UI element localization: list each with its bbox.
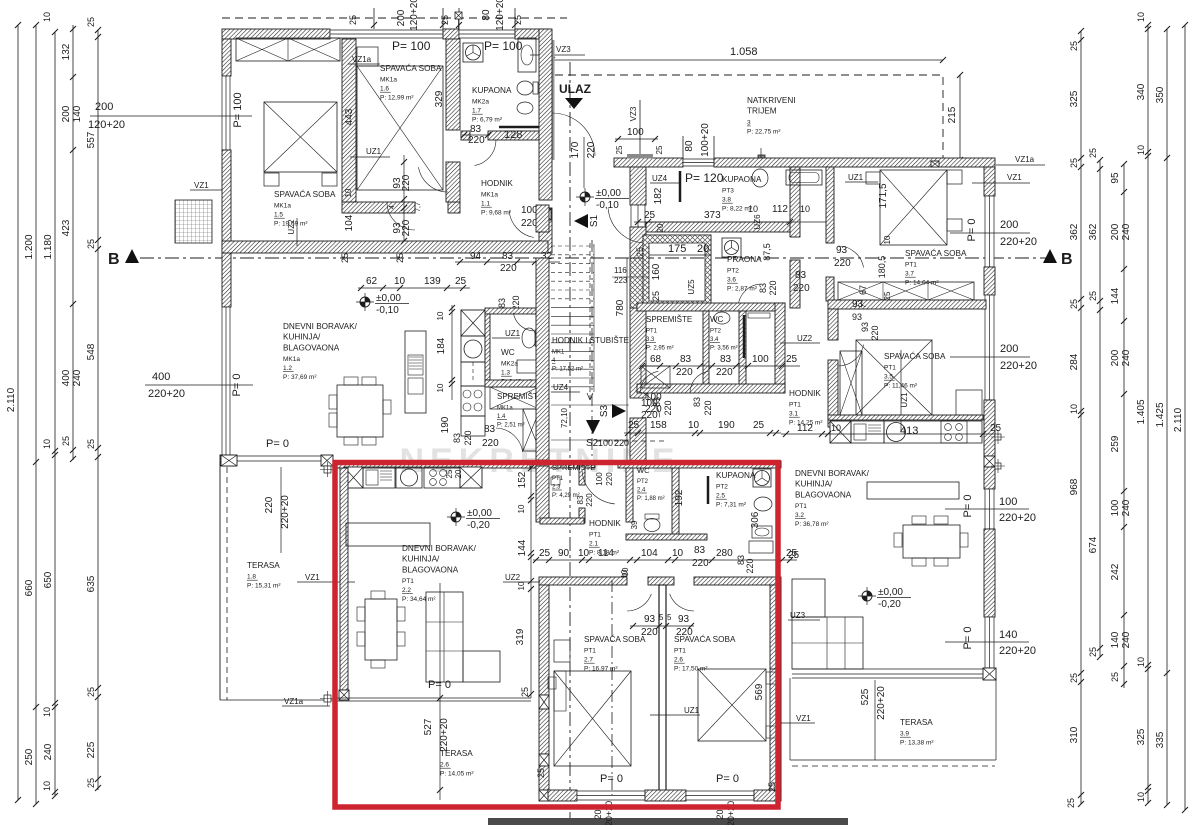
wall kupaona PT3 / bedroom 3.7 xyxy=(790,167,800,237)
svg-text:674: 674 xyxy=(1088,536,1099,553)
svg-text:83: 83 xyxy=(452,433,462,443)
svg-text:-0,20: -0,20 xyxy=(467,520,490,531)
svg-text:KUPAONA: KUPAONA xyxy=(722,175,762,184)
window 100+20 top wall right bldg xyxy=(683,159,714,166)
svg-text:25: 25 xyxy=(990,423,1002,434)
svg-text:PT1: PT1 xyxy=(884,365,896,372)
svg-text:KUHINJA/: KUHINJA/ xyxy=(283,333,321,342)
dim leader top window 200/120+20 xyxy=(373,8,375,29)
svg-text:144: 144 xyxy=(1110,287,1121,304)
door arc into hodnik 2.1 xyxy=(582,471,615,504)
svg-text:220: 220 xyxy=(676,367,693,378)
wall bedroom 3.5 / hodnik xyxy=(828,360,838,427)
svg-text:VZ1: VZ1 xyxy=(305,573,320,582)
svg-text:ULAZ: ULAZ xyxy=(559,82,591,96)
svg-text:KUHINJA/: KUHINJA/ xyxy=(795,480,833,489)
svg-text:3.4: 3.4 xyxy=(710,337,719,343)
svg-text:184: 184 xyxy=(436,337,447,354)
pier xyxy=(539,695,549,709)
svg-text:423: 423 xyxy=(61,219,72,236)
pier 2 xyxy=(539,754,549,766)
east wall mid xyxy=(984,400,995,456)
svg-text:DNEVNI BORAVAK/: DNEVNI BORAVAK/ xyxy=(402,544,477,553)
entry door arc left apartment xyxy=(552,113,595,156)
sink kupaona 2.5 xyxy=(752,526,772,538)
nightstand bed 2.7 xyxy=(548,677,556,689)
east wall piece xyxy=(984,467,995,489)
svg-text:93: 93 xyxy=(852,299,864,310)
svg-text:TERASA: TERASA xyxy=(440,749,473,758)
svg-text:S3: S3 xyxy=(599,404,610,417)
south wall mid piece xyxy=(645,790,686,801)
svg-text:83: 83 xyxy=(694,545,706,556)
north wall at spremiste 2.3 xyxy=(530,461,595,468)
west exterior wall below section xyxy=(222,253,231,307)
svg-text:25: 25 xyxy=(786,354,798,365)
wall xyxy=(626,468,633,522)
east wall mid apartment lower xyxy=(770,669,781,792)
dim chain right overall 2.110 xyxy=(1184,25,1186,810)
svg-text:10: 10 xyxy=(344,188,353,197)
wall spremiste south xyxy=(540,518,584,524)
svg-text:PT2: PT2 xyxy=(710,329,722,335)
svg-text:400: 400 xyxy=(61,369,72,386)
svg-text:SPAVAĆA SOBA: SPAVAĆA SOBA xyxy=(905,248,967,258)
svg-text:P= 100: P= 100 xyxy=(484,39,523,53)
door arc bedroom 3.5 xyxy=(838,345,864,367)
terasa pier east xyxy=(321,455,333,466)
svg-text:DNEVNI BORAVAK/: DNEVNI BORAVAK/ xyxy=(795,469,870,478)
elevation marker bottom-right apt xyxy=(858,587,876,605)
svg-text:780: 780 xyxy=(615,299,626,316)
svg-text:2.5: 2.5 xyxy=(716,493,725,500)
door arc praona xyxy=(738,284,760,306)
svg-text:2.6: 2.6 xyxy=(674,657,683,664)
west wall shaft part xyxy=(630,258,646,308)
svg-text:P= 0: P= 0 xyxy=(428,679,451,691)
top wall west part xyxy=(614,158,683,167)
door arc wc xyxy=(513,313,533,331)
west wall lower xyxy=(630,308,646,398)
svg-text:2.6: 2.6 xyxy=(440,762,449,769)
svg-text:WC: WC xyxy=(501,348,515,357)
sink vanity kupaona xyxy=(518,38,536,72)
svg-text:1.4: 1.4 xyxy=(497,414,506,420)
svg-text:P: 17,52 m²: P: 17,52 m² xyxy=(552,367,583,373)
svg-text:25: 25 xyxy=(1066,798,1076,808)
top wall box xyxy=(931,161,939,167)
wall south of spremiste/wc block xyxy=(637,384,785,393)
nightstand bed 2.6 xyxy=(766,672,777,684)
svg-text:240: 240 xyxy=(1121,223,1132,240)
svg-text:128: 128 xyxy=(504,129,522,141)
svg-text:1.6: 1.6 xyxy=(380,86,389,93)
west wall end pier at terasa xyxy=(220,455,234,466)
svg-text:182: 182 xyxy=(653,187,664,204)
svg-text:P: 16,97 m²: P: 16,97 m² xyxy=(584,666,618,673)
west wall stair/apt upper xyxy=(630,167,646,205)
sofa L mid apartment xyxy=(426,592,463,682)
svg-text:100: 100 xyxy=(627,127,644,138)
svg-text:HODNIK: HODNIK xyxy=(589,519,621,528)
svg-text:P: 2,95 m²: P: 2,95 m² xyxy=(646,346,674,352)
svg-text:P: 36,78 m²: P: 36,78 m² xyxy=(795,521,829,528)
S1 marker xyxy=(574,214,588,228)
S3 marker xyxy=(612,404,626,418)
svg-text:VZ1a: VZ1a xyxy=(1015,155,1035,164)
svg-text:95: 95 xyxy=(1110,172,1121,184)
svg-text:10: 10 xyxy=(42,439,52,449)
gray building stub bottom xyxy=(488,818,848,825)
axis dash-dot S3 through bedrooms xyxy=(611,580,613,795)
svg-text:220: 220 xyxy=(482,438,499,449)
dim line 780 xyxy=(626,258,628,460)
svg-text:215: 215 xyxy=(947,106,958,123)
svg-text:240: 240 xyxy=(1121,349,1132,366)
svg-text:25: 25 xyxy=(445,469,454,478)
svg-text:P= 120: P= 120 xyxy=(685,171,724,185)
svg-text:PT3: PT3 xyxy=(722,188,734,195)
svg-text:259: 259 xyxy=(1110,435,1121,452)
kupaona 2.5 bold jamb xyxy=(707,476,710,504)
dim 215 trijem xyxy=(959,75,961,160)
svg-text:280: 280 xyxy=(716,548,733,559)
svg-text:10: 10 xyxy=(394,276,406,287)
svg-text:10: 10 xyxy=(436,311,445,320)
svg-text:P: 17,50 m²: P: 17,50 m² xyxy=(674,666,708,673)
svg-text:100: 100 xyxy=(595,472,604,486)
svg-text:144: 144 xyxy=(517,539,528,556)
svg-text:SPAVAĆA SOBA: SPAVAĆA SOBA xyxy=(674,634,736,644)
svg-text:220: 220 xyxy=(468,135,485,146)
svg-text:P= 0: P= 0 xyxy=(600,773,623,785)
svg-text:220+20: 220+20 xyxy=(999,645,1036,657)
svg-text:10: 10 xyxy=(1136,12,1146,22)
wall bedroom 3.7 / hodnik upper xyxy=(826,167,834,243)
dim chain right 340/1.405/325 xyxy=(1147,25,1149,803)
svg-text:P= 100: P= 100 xyxy=(232,92,244,127)
bidet kupaona xyxy=(517,102,533,114)
svg-text:220: 220 xyxy=(401,219,412,236)
svg-text:160: 160 xyxy=(651,263,662,280)
svg-text:83: 83 xyxy=(720,354,732,365)
svg-text:83: 83 xyxy=(502,251,514,262)
south glass wall bottom-right xyxy=(792,669,983,678)
svg-text:HODNIK I STUBIŠTE: HODNIK I STUBIŠTE xyxy=(552,336,629,345)
east wall below entry door xyxy=(539,208,552,253)
svg-text:25: 25 xyxy=(786,548,798,559)
svg-text:25: 25 xyxy=(1088,148,1098,158)
svg-text:MK1a: MK1a xyxy=(481,192,498,199)
svg-text:335: 335 xyxy=(1155,731,1166,748)
svg-text:KUPAONA: KUPAONA xyxy=(472,86,512,95)
svg-text:240: 240 xyxy=(72,369,83,386)
svg-text:94: 94 xyxy=(470,251,482,262)
svg-text:25: 25 xyxy=(1088,647,1098,657)
svg-text:200: 200 xyxy=(1110,223,1121,240)
svg-text:25: 25 xyxy=(1110,672,1120,682)
dim chain left 132/200/423/400 xyxy=(72,25,74,460)
svg-text:PRAONA: PRAONA xyxy=(727,255,762,264)
svg-text:2.1: 2.1 xyxy=(589,541,598,548)
svg-text:220+20: 220+20 xyxy=(280,495,291,529)
svg-text:225: 225 xyxy=(86,741,97,758)
svg-text:250: 250 xyxy=(24,748,35,765)
svg-text:1.3: 1.3 xyxy=(501,370,510,377)
svg-text:325: 325 xyxy=(1136,728,1147,745)
dim 525/220+20 terasa 3.9 xyxy=(874,680,876,760)
wall shadow line entry xyxy=(553,40,555,160)
svg-text:10: 10 xyxy=(748,204,758,214)
svg-text:548: 548 xyxy=(86,343,97,360)
svg-text:968: 968 xyxy=(1069,478,1080,495)
window east wall 200/220+20 upper xyxy=(985,196,994,267)
wall bedroom 3.5 upper pier xyxy=(828,309,838,340)
svg-text:180,5: 180,5 xyxy=(877,256,887,279)
svg-text:25: 25 xyxy=(61,436,71,446)
svg-text:1.058: 1.058 xyxy=(730,46,758,58)
svg-text:UZ2: UZ2 xyxy=(797,334,813,343)
bathtub kupaona PT3 xyxy=(786,170,822,185)
svg-text:220: 220 xyxy=(834,258,851,269)
svg-text:2.2: 2.2 xyxy=(402,587,411,594)
svg-text:25: 25 xyxy=(1069,41,1079,51)
svg-text:83: 83 xyxy=(692,397,702,407)
window bedroom 2.7 south xyxy=(577,791,645,800)
terasa 3.9 dashed xyxy=(792,765,995,767)
kitchen cupboard xyxy=(461,310,485,336)
wall north of bedroom 2.6 xyxy=(694,577,781,585)
svg-text:25: 25 xyxy=(395,253,405,263)
svg-text:VZ1: VZ1 xyxy=(796,714,811,723)
svg-text:UZ6: UZ6 xyxy=(753,214,762,230)
svg-text:UZ4: UZ4 xyxy=(553,383,569,392)
svg-text:80: 80 xyxy=(481,9,492,21)
svg-text:1.7: 1.7 xyxy=(472,108,481,115)
partition between bedrooms 2.7/2.6 xyxy=(659,585,666,792)
door arc bedroom 3.7 xyxy=(838,246,864,268)
svg-text:±0,00: ±0,00 xyxy=(376,293,401,304)
svg-text:3.5: 3.5 xyxy=(884,374,893,381)
svg-text:93: 93 xyxy=(678,614,690,625)
svg-text:140: 140 xyxy=(999,629,1017,641)
svg-text:114: 114 xyxy=(598,548,614,559)
west wall mid xyxy=(630,227,646,258)
svg-text:200: 200 xyxy=(1000,219,1018,231)
bed bedroom 3.7 xyxy=(880,170,947,245)
svg-text:83: 83 xyxy=(576,495,585,504)
svg-text:220: 220 xyxy=(768,280,778,295)
wall north of bedroom 2.7 xyxy=(539,577,627,585)
svg-text:220: 220 xyxy=(663,400,673,415)
wall pier below kupaona door xyxy=(446,162,460,202)
svg-text:P: 37,69 m²: P: 37,69 m² xyxy=(283,374,317,381)
glass wall living/terasa mid xyxy=(336,698,531,701)
svg-text:UZ5: UZ5 xyxy=(687,279,696,295)
svg-text:140: 140 xyxy=(72,105,83,122)
datum flags east wall xyxy=(995,434,1001,440)
svg-text:83: 83 xyxy=(470,124,482,135)
door arc into hodnik 1.1 xyxy=(509,211,534,238)
svg-text:MK1a: MK1a xyxy=(497,406,513,412)
shower kupaona 2.5 xyxy=(753,469,771,487)
svg-text:443: 443 xyxy=(344,108,355,125)
window east wall 140/220+20 xyxy=(985,617,994,668)
counter dashed centerline xyxy=(472,362,474,382)
svg-text:5: 5 xyxy=(667,613,672,622)
svg-text:190: 190 xyxy=(718,420,735,431)
svg-text:10: 10 xyxy=(831,423,841,433)
svg-text:P: 1,88 m²: P: 1,88 m² xyxy=(637,496,665,502)
svg-text:DNEVNI BORAVAK/: DNEVNI BORAVAK/ xyxy=(283,322,358,331)
svg-text:P: 2,87 m²: P: 2,87 m² xyxy=(727,286,758,293)
svg-text:100+20: 100+20 xyxy=(700,123,711,157)
svg-text:±0,00: ±0,00 xyxy=(878,587,903,598)
svg-text:400: 400 xyxy=(152,371,170,383)
svg-text:UZ1: UZ1 xyxy=(684,706,700,715)
wardrobe bedroom 1.5 xyxy=(236,38,340,61)
svg-text:3.1: 3.1 xyxy=(789,411,798,418)
svg-text:MK1a: MK1a xyxy=(283,356,300,363)
svg-text:2.3: 2.3 xyxy=(552,485,561,491)
svg-text:25: 25 xyxy=(1069,673,1079,683)
svg-text:P= 0: P= 0 xyxy=(962,495,974,518)
svg-text:SPAVAĆA SOBA: SPAVAĆA SOBA xyxy=(380,63,442,73)
svg-text:220: 220 xyxy=(605,472,614,486)
dim chain right 25/362/674 xyxy=(1099,160,1101,657)
dim chain left overall 2.110 xyxy=(17,25,19,800)
wall south of kupaona PT3 xyxy=(646,222,790,232)
stair wall bottom xyxy=(539,766,549,790)
natkriveni trijem dashed outline xyxy=(555,75,943,160)
svg-text:120+20: 120+20 xyxy=(88,119,125,131)
svg-text:220: 220 xyxy=(793,283,810,294)
sideboard mid apartment xyxy=(346,523,430,546)
svg-text:3: 3 xyxy=(747,119,751,126)
washing machine kupaona MK2a xyxy=(463,43,483,62)
svg-text:325: 325 xyxy=(1069,90,1080,107)
svg-text:3.2: 3.2 xyxy=(795,512,804,519)
svg-text:120+20: 120+20 xyxy=(495,0,506,31)
dim leader top right window 100 and 80/100+20 xyxy=(639,100,641,160)
dim chain left 1.180/650/240 with 10s xyxy=(54,32,56,796)
bed bedroom 2.6 xyxy=(698,669,766,741)
svg-text:170: 170 xyxy=(570,141,581,158)
svg-text:112: 112 xyxy=(772,204,788,215)
svg-text:158: 158 xyxy=(650,420,667,431)
svg-text:220+20: 220+20 xyxy=(876,686,887,720)
kitchen sink mid xyxy=(401,469,418,486)
window east wall 100/220+20 xyxy=(985,489,994,529)
svg-text:67: 67 xyxy=(858,285,868,295)
door arcs bedrooms xyxy=(627,594,651,611)
top wall pier xyxy=(443,29,459,39)
shower partition 128 bold line xyxy=(499,126,540,129)
east wall pier xyxy=(984,267,995,295)
svg-text:UZ2: UZ2 xyxy=(505,573,521,582)
svg-text:HODNIK: HODNIK xyxy=(481,179,513,188)
kitchen island left living room xyxy=(405,331,426,413)
roof dashed line left part xyxy=(222,17,567,19)
svg-text:557: 557 xyxy=(86,131,97,148)
svg-text:4: 4 xyxy=(389,205,396,209)
door arc spremiste xyxy=(496,428,523,452)
svg-text:100: 100 xyxy=(641,398,658,409)
svg-text:200: 200 xyxy=(61,105,72,122)
svg-text:1.2: 1.2 xyxy=(283,365,292,372)
svg-text:B: B xyxy=(1061,251,1073,268)
svg-text:P= 0: P= 0 xyxy=(266,438,289,450)
wall xyxy=(485,314,490,380)
washing machine praona xyxy=(722,238,741,257)
svg-text:220: 220 xyxy=(870,325,880,340)
svg-text:93: 93 xyxy=(836,245,848,256)
axis dash-dot x=592 stair xyxy=(591,240,593,462)
svg-text:329: 329 xyxy=(434,90,445,107)
door arc bedroom 1.6 hodnik xyxy=(419,167,449,192)
terasa pier west xyxy=(221,455,237,466)
red highlight outline selected apartment xyxy=(335,463,778,808)
svg-text:25: 25 xyxy=(520,687,530,697)
svg-text:83: 83 xyxy=(497,298,507,308)
svg-text:MK1a: MK1a xyxy=(274,203,291,210)
svg-text:25: 25 xyxy=(615,145,624,154)
svg-text:B: B xyxy=(108,251,120,268)
window bedroom 2.6 south xyxy=(686,791,754,800)
svg-text:P= 100: P= 100 xyxy=(392,39,431,53)
svg-text:319: 319 xyxy=(515,628,526,645)
wall spremiste east lower xyxy=(579,508,585,523)
svg-text:284: 284 xyxy=(1069,353,1080,370)
svg-text:152: 152 xyxy=(517,471,528,488)
stair center dashed xyxy=(589,243,591,400)
toilet WC 1.3 xyxy=(522,328,536,348)
east exterior wall upper (entry side) xyxy=(539,29,552,200)
svg-text:10: 10 xyxy=(1136,657,1146,667)
svg-text:25: 25 xyxy=(628,420,640,431)
toilet kupaona PT3 xyxy=(752,169,768,187)
svg-text:PT2: PT2 xyxy=(637,479,649,485)
svg-text:-0,10: -0,10 xyxy=(376,305,399,316)
terasa dashed boundary left xyxy=(226,467,228,700)
hob bottom-right kitchen xyxy=(941,421,967,443)
svg-text:10: 10 xyxy=(42,707,52,717)
wall between bedroom doors xyxy=(648,577,674,585)
apartment south wall at section B xyxy=(222,241,548,253)
svg-text:25: 25 xyxy=(644,210,656,221)
svg-text:100: 100 xyxy=(598,438,613,448)
svg-text:SPAVAĆA SOBA: SPAVAĆA SOBA xyxy=(584,634,646,644)
door arc kupaona xyxy=(475,140,497,166)
svg-text:220: 220 xyxy=(463,430,473,445)
svg-text:200: 200 xyxy=(1110,349,1121,366)
elevation marker mid apartment xyxy=(447,508,465,526)
svg-text:104: 104 xyxy=(641,548,658,559)
radiator grid symbol xyxy=(175,200,212,243)
svg-text:90: 90 xyxy=(558,548,570,559)
svg-text:83: 83 xyxy=(758,283,768,293)
stair treads xyxy=(551,308,594,387)
svg-text:68: 68 xyxy=(650,354,662,365)
west wall end box xyxy=(339,690,349,700)
svg-text:10: 10 xyxy=(1069,404,1079,414)
sofa L bottom-right xyxy=(792,579,825,617)
svg-text:P= 0: P= 0 xyxy=(962,627,974,650)
svg-text:UZ4: UZ4 xyxy=(652,174,668,183)
svg-text:1.5: 1.5 xyxy=(274,212,283,219)
svg-text:P: 22,75 m²: P: 22,75 m² xyxy=(747,128,781,135)
corner pier xyxy=(539,790,549,801)
